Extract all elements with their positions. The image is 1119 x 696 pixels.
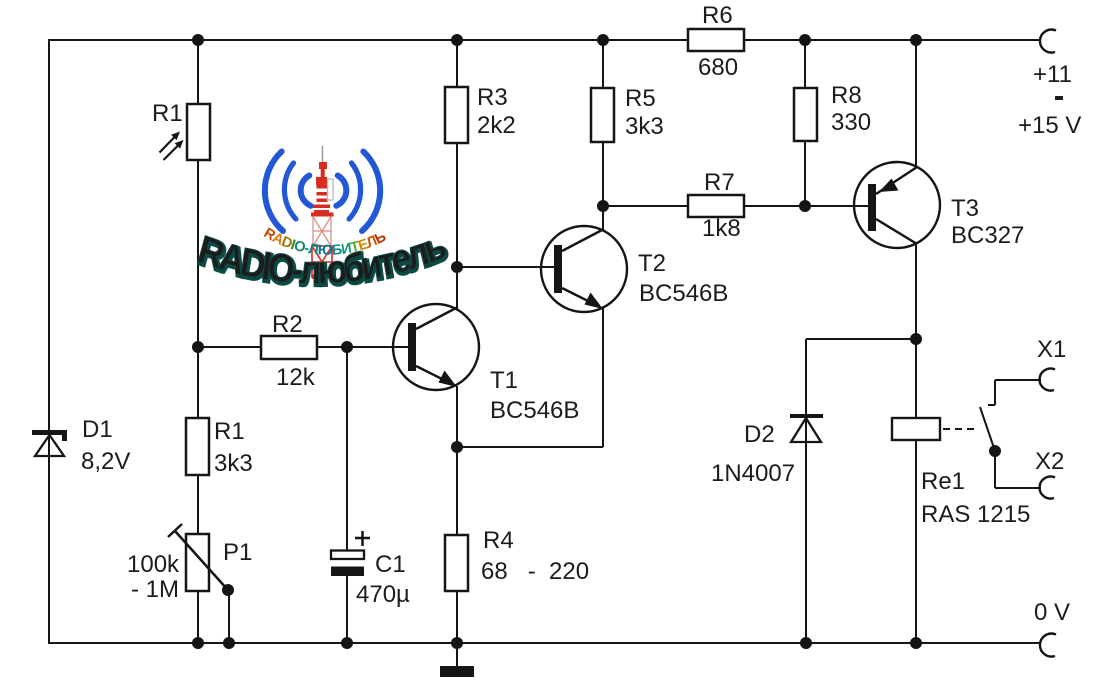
svg-text:2k2: 2k2 (477, 112, 516, 139)
svg-text:X1: X1 (1037, 336, 1066, 363)
svg-text:R5: R5 (625, 85, 656, 112)
zener diode D1 (32, 430, 67, 456)
logo radio waves right mid (349, 163, 360, 219)
logo big arc text (194, 222, 452, 294)
transistor T3 (PNP) (853, 162, 940, 248)
svg-text:Re1: Re1 (921, 468, 965, 495)
svg-text:100k: 100k (127, 551, 180, 578)
node R5 bottom / R7 left / T2 collector (597, 200, 609, 212)
wire T3 emitter/collector branch (915, 40, 917, 643)
switch pivot to X2 (994, 451, 996, 488)
node T3 collector / D2 link (910, 333, 922, 345)
diode D2 (790, 414, 823, 442)
node bottom relay (910, 637, 922, 649)
node R2 right / C1 / T1 base (341, 341, 353, 353)
wire D2 branch (805, 339, 807, 643)
svg-text:3k3: 3k3 (214, 450, 253, 477)
switch arm (980, 407, 995, 451)
svg-text:- 1M: - 1M (131, 576, 179, 603)
svg-text:T3: T3 (951, 195, 979, 222)
node T1 emitter / R4 top (451, 441, 463, 453)
wire left rail (48, 39, 50, 644)
node bottom P1 left (192, 637, 204, 649)
switch contact X1 branch (980, 380, 1041, 488)
wire T2 emitter down (602, 307, 604, 447)
svg-text:C1: C1 (375, 551, 406, 578)
wire C1 branch (346, 347, 348, 643)
svg-text:R7: R7 (704, 169, 735, 196)
svg-text:R1: R1 (214, 418, 245, 445)
svg-text:1k8: 1k8 (702, 215, 741, 242)
resistor R3 (445, 87, 468, 143)
capacitor C1 (331, 531, 370, 576)
svg-text:BC546B: BC546B (490, 397, 579, 424)
svg-text:BC546B: BC546B (639, 280, 728, 307)
svg-text:R1: R1 (152, 100, 183, 127)
svg-text:8,2V: 8,2V (81, 448, 130, 475)
svg-text:+11: +11 (1033, 61, 1072, 88)
resistor R8 (794, 88, 817, 141)
svg-text:330: 330 (831, 109, 871, 136)
transistor T1 (392, 304, 479, 390)
svg-text:RAS 1215: RAS 1215 (921, 501, 1030, 528)
node R2 left / R1 branch (192, 341, 204, 353)
svg-text:3k3: 3k3 (625, 113, 664, 140)
logo radio waves left mid (284, 163, 295, 219)
logo radio waves left outer (265, 152, 283, 232)
svg-text:R8: R8 (831, 82, 862, 109)
terminal X2 (1040, 477, 1055, 499)
svg-text:X2: X2 (1035, 448, 1064, 475)
wire bottom rail (48, 642, 1041, 644)
node top R5/R6 (597, 34, 609, 46)
resistor R6 (688, 29, 744, 51)
wire R8 branch (804, 40, 806, 206)
switch pivot dot (989, 445, 1001, 457)
wire T1 emitter down (456, 386, 458, 643)
resistor R1 (3k3) (186, 418, 209, 475)
terminal X1 (1040, 369, 1055, 391)
relay dashed actuator line (943, 428, 979, 430)
svg-text:BC327: BC327 (951, 222, 1024, 249)
LDR light arrows (160, 132, 184, 161)
node top R3 (451, 34, 463, 46)
svg-text:R2: R2 (272, 311, 303, 338)
label minus (1055, 96, 1063, 100)
wire R2 to T1 base (198, 346, 408, 348)
resistor R5 (591, 88, 614, 142)
svg-text:R4: R4 (483, 527, 514, 554)
node R3 bottom / T2 base / T1 collector (451, 261, 463, 273)
wire R3/T1/R4 branch (456, 40, 458, 308)
potentiometer P1 (168, 524, 234, 643)
node top T3 emitter (910, 34, 922, 46)
node bottom R4 / ground (451, 637, 463, 649)
svg-text:+15 V: +15 V (1018, 112, 1081, 139)
wire R5/T2 branch (602, 40, 604, 229)
wire T3 base (805, 205, 868, 207)
node bottom D2 (800, 637, 812, 649)
svg-text:R6: R6 (702, 2, 733, 29)
svg-text:D2: D2 (744, 421, 775, 448)
resistor R4 (445, 535, 468, 591)
resistor R2 (261, 336, 317, 359)
logo radio waves right outer (362, 152, 380, 232)
relay Re1 coil box (892, 418, 940, 440)
svg-text:D1: D1 (82, 416, 113, 443)
logo tower (311, 146, 334, 278)
node top R1-LDR (192, 34, 204, 46)
svg-text:1N4007: 1N4007 (711, 460, 795, 487)
node bottom P1 wiper (223, 637, 235, 649)
svg-text:R3: R3 (477, 84, 508, 111)
logo radio waves left inner (301, 176, 311, 206)
svg-text:T1: T1 (490, 367, 518, 394)
terminal +V (1040, 30, 1056, 53)
resistor R1 (LDR) (187, 104, 210, 160)
wire D2 top link (806, 338, 916, 340)
svg-text:470µ: 470µ (356, 581, 410, 608)
svg-text:P1: P1 (223, 539, 252, 566)
node bottom C1 (341, 637, 353, 649)
wire R1-LDR branch (197, 40, 199, 643)
node R7 right / R8 bottom / T3 base (799, 200, 811, 212)
svg-text:680: 680 (698, 54, 738, 81)
transistor T2 (457, 226, 627, 312)
svg-text:T2: T2 (638, 250, 666, 277)
wire R7 row (603, 205, 805, 207)
svg-text:0 V: 0 V (1034, 599, 1070, 626)
svg-text:12k: 12k (276, 364, 316, 391)
wire top rail (48, 39, 1041, 41)
terminal 0V (1040, 634, 1056, 657)
node top R6/R8 (799, 34, 811, 46)
resistor R7 (688, 195, 744, 217)
logo radio waves right inner (336, 176, 346, 206)
svg-text:68 - 220: 68 - 220 (481, 558, 589, 585)
wire emitter link T1-T2 (457, 446, 603, 448)
ground (440, 643, 474, 677)
